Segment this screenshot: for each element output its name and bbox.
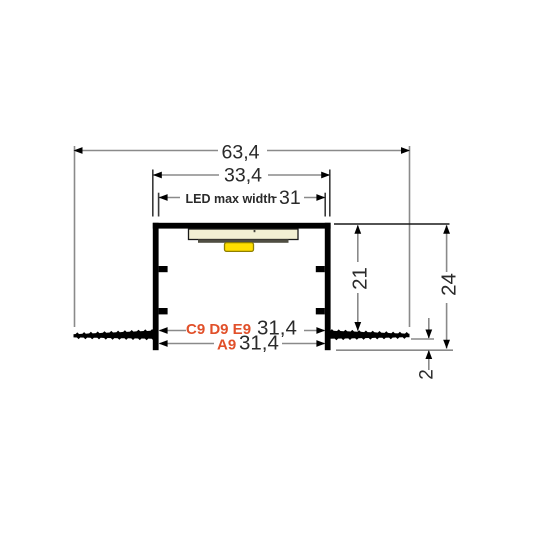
- svg-text:A9: A9: [217, 336, 236, 353]
- svg-text:2: 2: [417, 369, 438, 380]
- svg-text:63,4: 63,4: [222, 141, 260, 163]
- svg-text:31: 31: [279, 187, 301, 209]
- svg-text:LED max width: LED max width: [186, 192, 276, 206]
- svg-text:33,4: 33,4: [224, 164, 262, 186]
- svg-text:21: 21: [348, 267, 371, 290]
- svg-text:24: 24: [437, 273, 460, 296]
- svg-text:-: -: [272, 187, 278, 206]
